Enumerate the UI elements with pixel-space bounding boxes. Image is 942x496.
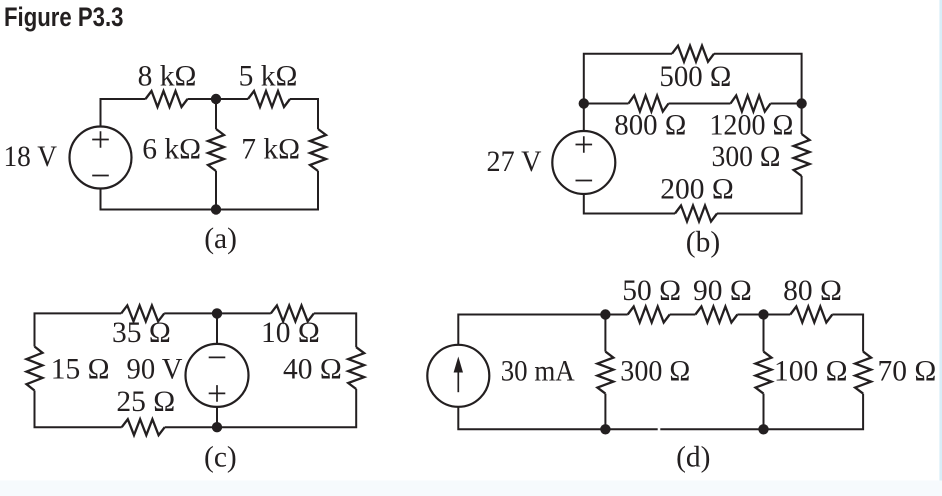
wire (a) source top to 8k [101,99,146,127]
node (d) bottom branch1 [600,424,610,434]
wire (c) top-right corner [314,313,356,347]
svg-text:(a): (a) [204,223,237,255]
wire (c) bottom-right corner [165,389,357,427]
resistor 6 kOhm (a) [208,129,224,171]
resistor 35 Ohm (c) [121,305,164,321]
resistor 5 kOhm (a) [248,91,290,107]
svg-text:100 Ω: 100 Ω [774,356,848,388]
node (d) top branch1 [600,309,610,319]
wire (d) top-right corner [832,315,863,352]
wire (a) mid branch top [215,99,217,129]
resistor 800 Ohm (b) [629,96,669,112]
svg-text:50 Ω: 50 Ω [622,275,681,307]
node (d) top branch2 [758,309,768,319]
wire (d) bottom rail right part [660,394,863,430]
resistor 300 Ohm (d) [597,352,613,394]
svg-text:500 Ω: 500 Ω [659,61,731,93]
wire (c) bottom-left corner [35,391,122,428]
voltage source 90 V (c) [186,344,249,407]
svg-text:1200 Ω: 1200 Ω [709,110,793,142]
wire (b) mid rail center [669,103,731,105]
resistor 10 Ohm (c) [271,305,314,321]
wire (b) left rail up and top-left [584,54,672,131]
wire (b) bottom-left to source [584,194,675,214]
svg-text:18 V: 18 V [4,141,58,173]
wire (d) between 50 and 90 [670,314,696,316]
wire (d) 90 to 80 through node [737,314,790,316]
wire (a) 7k bottom, bottom rail, to source [101,171,319,210]
page edge tint right [939,0,942,496]
svg-text:30 mA: 30 mA [501,356,576,388]
svg-text:5 kΩ: 5 kΩ [239,61,298,93]
wire (b) mid rail right [771,103,802,105]
node (d) bottom branch2 [758,424,768,434]
current source 30 mA (d) [427,345,489,407]
resistor 200 Ohm (b) [675,206,717,222]
wire (a) 5k to 7k top [290,99,318,129]
svg-text:800 Ω: 800 Ω [614,110,686,142]
wire (a) mid branch bottom [215,171,217,210]
wire (c) source bottom stub [216,407,218,427]
wire (d) branch1 bottom stub [604,394,606,430]
resistor 90 Ohm (d) [695,307,737,323]
svg-text:8 kΩ: 8 kΩ [138,61,197,93]
voltage source 18 V (a) [70,127,132,189]
wire (c) top-left corner [35,313,122,346]
wire (c) source top stub [216,313,218,344]
resistor 70 Ohm (d) [855,352,871,394]
svg-text:35 Ω: 35 Ω [112,317,171,349]
wire (d) branch1 top stub [604,315,606,352]
svg-text:6 kΩ: 6 kΩ [142,134,201,166]
svg-text:90 V: 90 V [127,353,183,385]
node (c) bottom [212,422,222,432]
resistor 500 Ohm (b) [672,46,714,62]
svg-text:15 Ω: 15 Ω [51,353,110,385]
resistor 7 kOhm (a) [310,129,326,171]
svg-text:(c): (c) [204,441,237,473]
resistor 80 Ohm (d) [790,307,832,323]
svg-text:90 Ω: 90 Ω [693,275,752,307]
resistor 1200 Ohm (b) [731,96,771,112]
voltage source 27 V (b) [552,131,615,194]
svg-text:200 Ω: 200 Ω [660,174,734,206]
svg-text:27 V: 27 V [487,146,542,178]
wire (d) bottom rail left part to source [458,407,657,430]
svg-text:7 kΩ: 7 kΩ [241,134,300,166]
wire (c) top middle through node [164,312,271,314]
resistor 300 Ohm (b) [794,134,810,176]
node (c) top [212,308,222,318]
node (b) right [796,98,806,108]
resistor 100 Ohm (d) [756,352,772,394]
svg-text:Figure P3.3: Figure P3.3 [4,2,124,32]
wire (b) 300 to bottom-right [717,176,802,214]
svg-text:(b): (b) [686,227,720,259]
node (b) left [579,98,589,108]
page edge tint bottom [0,481,942,496]
wire (d) branch2 top stub [763,315,765,352]
node (a) top-middle [211,94,221,104]
node (a) bottom-middle [211,204,221,214]
wire (d) source top, top rail to 50 [458,315,627,345]
svg-text:40 Ω: 40 Ω [283,353,342,385]
svg-text:10 Ω: 10 Ω [261,317,320,349]
resistor 8 kOhm (a) [146,91,188,107]
svg-text:25 Ω: 25 Ω [116,386,175,418]
wire (d) branch2 bottom stub [763,394,765,430]
svg-text:80 Ω: 80 Ω [783,275,842,307]
resistor 15 Ohm (c) [27,347,43,391]
resistor 50 Ohm (d) [628,307,670,323]
svg-text:70 Ω: 70 Ω [878,356,937,388]
resistor 25 Ohm (c) [122,419,165,435]
svg-text:300 Ω: 300 Ω [712,141,781,173]
svg-text:300 Ω: 300 Ω [620,356,690,388]
wire (b) top-right down to 300 [714,54,802,134]
wire (a) 8k to 5k through top node [188,98,249,100]
svg-text:(d): (d) [676,441,710,473]
wire (b) mid rail left [584,103,629,105]
resistor 40 Ohm (c) [348,347,364,389]
